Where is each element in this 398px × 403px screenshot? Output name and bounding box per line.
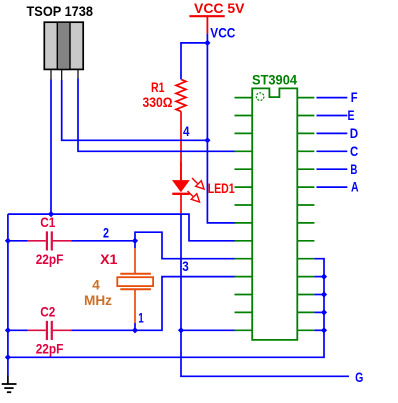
svg-text:X1: X1: [100, 252, 118, 267]
wire output E: [317, 115, 348, 117]
svg-text:LED1: LED1: [208, 181, 235, 196]
wire output B: [317, 168, 348, 170]
junction right bus row12: [321, 291, 327, 297]
capacitor C1: [28, 231, 72, 250]
IC left pins: [235, 98, 253, 331]
wire LED cathode down to G: [181, 213, 349, 376]
junction rail/C2: [5, 327, 11, 333]
junction VCC/R1: [204, 40, 210, 46]
svg-text:4: 4: [183, 124, 190, 139]
svg-text:F: F: [351, 90, 358, 105]
capacitor C2: [28, 321, 72, 340]
junction right bus row11: [321, 274, 327, 280]
svg-text:C2: C2: [40, 305, 55, 320]
svg-text:2: 2: [103, 225, 109, 240]
wire C2 to crystal-bottom then up to IC pin 3-row: [71, 277, 235, 331]
TSOP pin 3 lead: [77, 69, 79, 78]
crystal X1: [117, 248, 153, 323]
wire VCC vertical to IC pin: [207, 34, 235, 223]
junction right bus row14: [321, 327, 327, 333]
svg-text:22pF: 22pF: [36, 342, 64, 357]
wire tied right pins bus: [8, 259, 324, 358]
junction crystal bottom node: [132, 327, 138, 333]
svg-text:C: C: [350, 144, 358, 159]
svg-text:C1: C1: [40, 215, 56, 230]
ground wire top horizontal with jog to IC pin: [8, 214, 236, 241]
wire right pin row14 stub: [314, 329, 324, 331]
svg-text:B: B: [350, 162, 357, 177]
wire output A: [317, 186, 348, 188]
svg-text:VCC 5V: VCC 5V: [194, 1, 245, 16]
wire right pin row11 stub: [314, 276, 324, 278]
LED1 triangle: [172, 180, 190, 192]
LED1 light arrow upper: [192, 178, 204, 189]
wire output C: [317, 150, 348, 152]
junction node 4 on VCC line: [204, 137, 210, 143]
TSOP pin 2 lead: [61, 69, 63, 80]
svg-text:MHz: MHz: [84, 293, 112, 308]
svg-text:A: A: [351, 180, 359, 195]
wire right pin row13 stub: [314, 311, 324, 313]
junction rail/ground long wire: [5, 354, 11, 360]
svg-text:ST3904: ST3904: [252, 71, 297, 87]
junction rail/C1: [5, 238, 11, 244]
IC pin1 marker circle: [256, 93, 264, 101]
LED1 anode lead: [180, 162, 182, 180]
R1 bottom lead to LED anode: [180, 111, 182, 180]
svg-text:3: 3: [182, 259, 189, 274]
svg-text:22pF: 22pF: [36, 252, 64, 267]
ground rail left vertical: [7, 214, 9, 375]
svg-text:D: D: [350, 126, 359, 141]
junction TSOP pin1 on ground wire: [48, 211, 54, 217]
crystal X1 value 4 MHz: [84, 277, 112, 308]
resistor R1 zigzag: [176, 79, 186, 111]
svg-text:G: G: [355, 370, 363, 385]
svg-text:4: 4: [92, 277, 100, 292]
wire rail to C2: [8, 329, 28, 331]
IC U1 body: [252, 88, 297, 340]
svg-text:E: E: [348, 108, 355, 123]
svg-text:TSOP 1738: TSOP 1738: [27, 3, 94, 19]
LED1 cathode bar: [172, 193, 189, 195]
wire TSOP pin1 down to ground wire: [50, 80, 52, 215]
svg-text:R1: R1: [151, 80, 165, 95]
wire stub crystal bottom: [134, 323, 136, 330]
svg-text:330Ω: 330Ω: [143, 95, 173, 110]
wire output F: [317, 97, 348, 99]
wire TSOP pin3 to IC pin C-row: [78, 79, 236, 152]
IR receiver U2 TSOP 1738 body: [44, 22, 83, 69]
wire TSOP pin2 to node 4: [62, 80, 208, 140]
junction LED net: [178, 327, 184, 333]
junction right bus row13: [321, 309, 327, 315]
ground symbol: [2, 376, 17, 393]
wire output D: [317, 132, 348, 134]
IC right pins: [297, 98, 314, 331]
wire LED net to IC pin bottom-left: [181, 329, 236, 331]
junction crystal top node: [132, 238, 138, 244]
wire VCC to R1 top: [181, 43, 207, 80]
svg-text:VCC: VCC: [210, 26, 235, 41]
wire rail to C1: [8, 240, 28, 242]
LED1 cathode lead: [180, 194, 182, 213]
svg-text:1: 1: [138, 311, 144, 326]
wire right pin row12 stub: [314, 294, 324, 296]
TSOP pin 1 lead: [50, 69, 52, 79]
power VCC 5V symbol: [189, 1, 244, 34]
wire crystal-top node jog to IC pin 2-row: [135, 232, 236, 259]
LED1 light arrow lower: [188, 191, 200, 202]
wire stub crystal top: [134, 241, 136, 248]
wire C1 to crystal-top node: [71, 240, 135, 242]
